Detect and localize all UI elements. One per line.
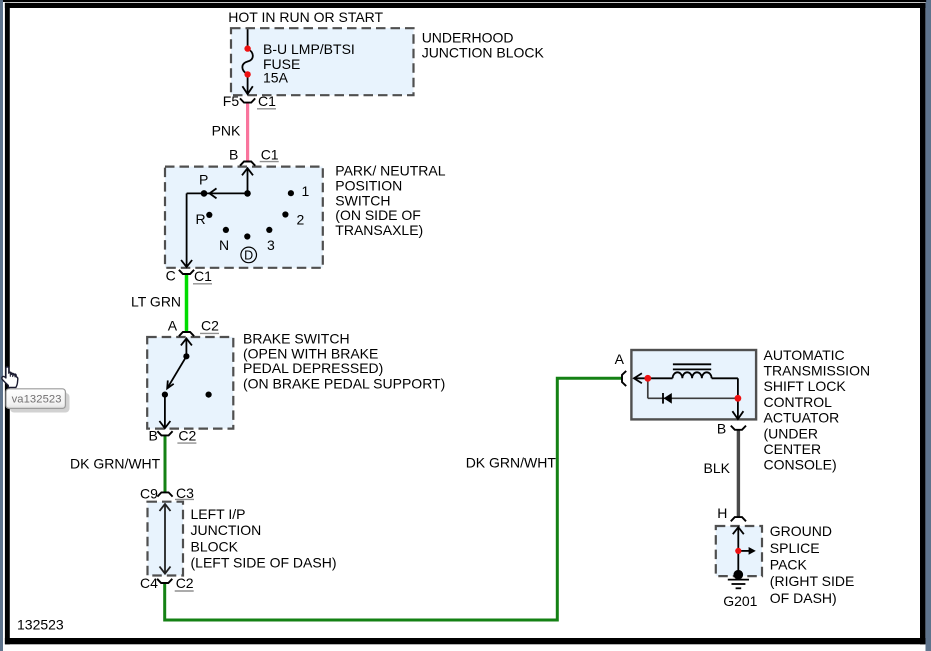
component label: UNDERHOOD JUNCTION BLOCK: [422, 29, 545, 60]
svg-text:P: P: [199, 171, 208, 187]
svg-text:SPLICE: SPLICE: [770, 540, 820, 556]
tooltip va132523: [6, 389, 70, 413]
contact D ring: [241, 247, 257, 263]
contact 2: [282, 211, 288, 217]
connector A/C2: [179, 332, 194, 336]
svg-text:GROUND: GROUND: [770, 523, 832, 539]
svg-text:C: C: [166, 268, 176, 284]
contact R: [206, 212, 212, 218]
svg-text:2: 2: [297, 211, 305, 227]
svg-text:(OPEN WITH BRAKE: (OPEN WITH BRAKE: [243, 345, 378, 361]
splice branch arrow: [749, 547, 756, 555]
actuator solenoid coil L1 with core: [634, 364, 744, 419]
brake switch enclosure: [147, 337, 233, 429]
left I/P junction block feed-through (C9 to C4): [160, 504, 171, 574]
pin label C2 (brake switch input): [200, 318, 219, 334]
junction (coil input splice): [644, 375, 651, 382]
svg-text:B: B: [717, 420, 726, 436]
left I/P junction block enclosure: [148, 502, 184, 576]
pin label C1 (switch input): [260, 147, 279, 163]
brake switch SW1 (normally closed contact arm): [159, 338, 192, 428]
svg-text:D: D: [244, 248, 253, 262]
svg-text:TRANSAXLE): TRANSAXLE): [335, 222, 423, 238]
svg-text:SWITCH: SWITCH: [335, 192, 390, 208]
svg-text:C2: C2: [176, 575, 194, 591]
contact 1: [288, 190, 294, 196]
park/neutral switch wiper (pin B to P contact to pin C): [181, 168, 253, 267]
svg-text:LT GRN: LT GRN: [131, 293, 181, 309]
pin label C3: [175, 485, 194, 501]
connector F5/C1: [240, 98, 255, 102]
svg-text:OF DASH): OF DASH): [770, 590, 837, 606]
svg-text:C1: C1: [258, 93, 276, 109]
svg-text:3: 3: [267, 237, 275, 253]
diode branch wire: [648, 378, 738, 398]
component label: LEFT I/P JUNCTION BLOCK: [191, 506, 337, 571]
svg-text:TRANSMISSION: TRANSMISSION: [764, 363, 871, 379]
svg-text:C2: C2: [178, 427, 196, 443]
svg-text:UNDERHOOD: UNDERHOOD: [422, 29, 514, 45]
svg-text:A: A: [615, 351, 625, 367]
svg-text:HOT IN RUN OR START: HOT IN RUN OR START: [228, 9, 383, 25]
svg-text:1: 1: [302, 183, 310, 199]
svg-text:R: R: [196, 211, 206, 227]
svg-text:JUNCTION BLOCK: JUNCTION BLOCK: [422, 44, 545, 60]
svg-text:DK GRN/WHT: DK GRN/WHT: [70, 456, 161, 472]
svg-text:va132523: va132523: [12, 393, 62, 405]
svg-text:C2: C2: [201, 318, 219, 334]
component label: AUTOMATIC TRANSMISSION SHIFT LOCK CONTROL ACTUATOR: [764, 347, 871, 473]
svg-text:(UNDER: (UNDER: [764, 425, 818, 441]
svg-text:N: N: [219, 237, 229, 253]
svg-text:JUNCTION: JUNCTION: [191, 522, 262, 538]
svg-text:PARK/ NEUTRAL: PARK/ NEUTRAL: [335, 162, 445, 178]
svg-text:BRAKE SWITCH: BRAKE SWITCH: [243, 331, 350, 347]
connector A (actuator): [622, 371, 626, 386]
component label: BRAKE SWITCH: [243, 331, 445, 392]
svg-text:B: B: [229, 147, 238, 163]
brake switch node A: [183, 353, 189, 359]
svg-text:B-U LMP/BTSI: B-U LMP/BTSI: [263, 41, 355, 57]
pin label C2 (junction block output): [175, 575, 194, 591]
value label: B-U LMP/BTSI FUSE 15A: [263, 41, 355, 86]
pin label C1 (switch output): [193, 268, 212, 284]
svg-text:C9: C9: [140, 486, 158, 502]
svg-text:CENTER: CENTER: [764, 441, 822, 457]
contact N: [223, 227, 229, 233]
contact P: [201, 190, 208, 197]
svg-text:PACK: PACK: [770, 557, 808, 573]
svg-text:15A: 15A: [263, 70, 289, 86]
fuse F5 (B-U LMP/BTSI 15A): [242, 29, 253, 94]
svg-text:(ON BRAKE PEDAL SUPPORT): (ON BRAKE PEDAL SUPPORT): [243, 376, 445, 392]
shift lock control actuator enclosure: [631, 350, 756, 419]
svg-text:BLOCK: BLOCK: [191, 538, 239, 554]
svg-text:H: H: [717, 505, 727, 521]
svg-text:CONSOLE): CONSOLE): [764, 457, 837, 473]
svg-text:ACTUATOR: ACTUATOR: [764, 410, 840, 426]
svg-text:C4: C4: [140, 575, 158, 591]
wire DK GRN/WHT (left I/P junction block C4 to actuator pin A): [165, 378, 622, 620]
svg-text:POSITION: POSITION: [335, 177, 402, 193]
svg-text:(ON SIDE OF: (ON SIDE OF: [335, 207, 421, 223]
svg-text:G201: G201: [723, 593, 757, 609]
svg-text:A: A: [168, 318, 178, 334]
connector B/C2: [157, 431, 172, 435]
mouse hand cursor: [2, 367, 18, 388]
svg-text:C1: C1: [261, 147, 279, 163]
park/neutral position switch enclosure: [165, 167, 323, 268]
connector B (actuator): [731, 426, 746, 430]
wire LT GRN (switch pin C to brake switch pin A): [185, 274, 189, 331]
node common (switch input): [244, 190, 251, 197]
svg-text:LEFT I/P: LEFT I/P: [191, 506, 246, 522]
svg-text:B: B: [149, 427, 158, 443]
svg-text:CONTROL: CONTROL: [764, 394, 833, 410]
svg-text:F5: F5: [223, 93, 240, 109]
diode D1 (flyback, across coil): [663, 393, 672, 404]
svg-text:SHIFT LOCK: SHIFT LOCK: [764, 378, 847, 394]
svg-text:BLK: BLK: [704, 460, 731, 476]
svg-text:(LEFT SIDE OF DASH): (LEFT SIDE OF DASH): [191, 555, 337, 571]
contact D (center): [244, 233, 250, 239]
svg-text:PNK: PNK: [212, 123, 241, 139]
svg-text:C1: C1: [194, 268, 212, 284]
splice junction: [735, 548, 741, 554]
connector B/C1: [240, 162, 255, 166]
svg-text:132523: 132523: [17, 617, 64, 633]
component label: GROUND SPLICE PACK: [770, 523, 855, 606]
connector C4/C2: [157, 579, 172, 583]
contact 3: [266, 227, 272, 233]
component label: PARK/ NEUTRAL POSITION SWITCH: [335, 162, 445, 238]
connector H (ground splice pack): [731, 517, 746, 521]
svg-text:C3: C3: [176, 485, 194, 501]
pin label C1 (fuse output): [257, 93, 276, 109]
svg-text:(RIGHT SIDE: (RIGHT SIDE: [770, 573, 855, 589]
pin label C2 (brake switch output): [177, 427, 196, 443]
wire BLK (actuator pin B to ground splice pack pin H): [737, 430, 740, 517]
svg-text:DK GRN/WHT: DK GRN/WHT: [466, 455, 557, 471]
svg-text:AUTOMATIC: AUTOMATIC: [764, 347, 845, 363]
ground splice pack feed wire: [733, 527, 750, 575]
ground G201: [728, 570, 749, 588]
brake switch node B: [162, 392, 168, 398]
wire DK GRN/WHT (brake switch pin B to left I/P junction block C9): [164, 436, 167, 493]
ground splice pack enclosure: [716, 526, 762, 576]
brake switch open contact: [206, 392, 212, 398]
junction (coil output splice): [735, 395, 742, 402]
connector C9/C3: [157, 492, 172, 496]
connector C/C1: [179, 270, 194, 274]
wire PNK (fuse F5 to park/neutral switch pin B): [246, 103, 249, 161]
svg-text:PEDAL DEPRESSED): PEDAL DEPRESSED): [243, 360, 383, 376]
underhood junction block (dashed enclosure): [231, 28, 414, 95]
